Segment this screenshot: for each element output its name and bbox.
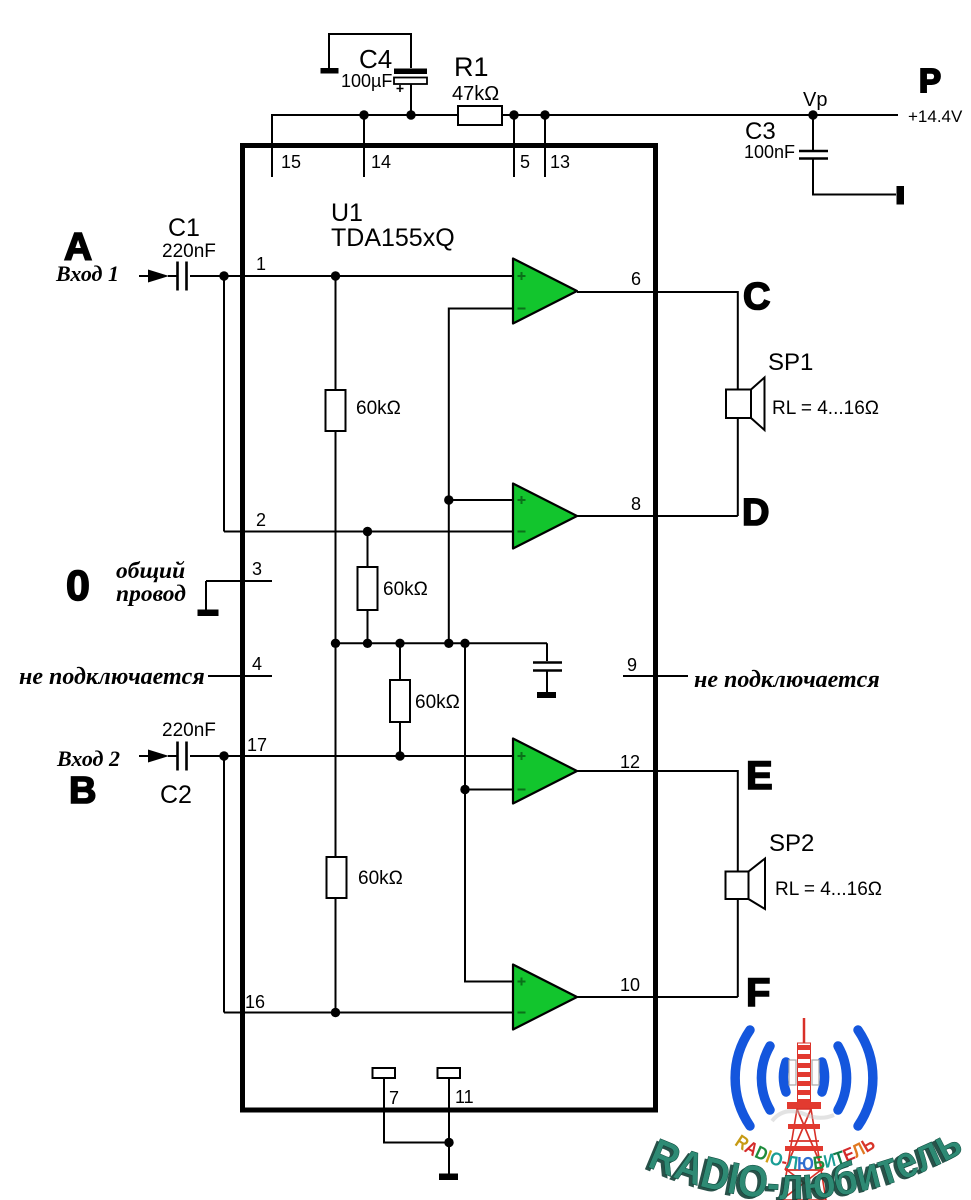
svg-text:C2: C2 [160,781,192,809]
ground bar internal capacitor [537,692,556,698]
node op2 plus [444,495,453,504]
node A split [219,271,228,280]
svg-text:220nF: 220nF [162,241,216,262]
svg-text:D: D [742,492,769,534]
wire pin 12 output to node E [577,771,738,872]
svg-text:60kΩ: 60kΩ [415,692,460,713]
svg-text:0: 0 [66,562,90,610]
svg-text:TDA155xQ: TDA155xQ [331,224,455,252]
wire pin 14 stub [363,115,365,177]
ground bar at pin 3 [198,610,219,617]
logo radio waves blue arcs [735,1030,873,1126]
capacitor C1 220nF [178,262,187,291]
svg-text:9: 9 [627,655,637,675]
node pin2-60k [363,527,372,536]
capacitor C2 220nF [178,742,187,771]
svg-text:U1: U1 [331,199,363,227]
op-amp 3 polarity marks [518,752,526,790]
pin 7 pad [373,1068,396,1078]
wire op2 non-inverting branch [449,499,513,501]
node row-4 [444,639,453,648]
node pin1-60k [331,271,340,280]
wire supply bus right of R1 [502,114,898,116]
svg-text:R1: R1 [454,52,489,82]
node op3 minus [460,785,469,794]
node row-1 [331,639,340,648]
logo big 3D text RADIO-lyubitel [646,1153,962,1199]
resistor R1 47k [458,106,502,125]
node B split [219,751,228,760]
speaker SP2 [726,872,749,900]
wire C4 bottom lead [410,84,412,115]
svg-text:SP1: SP1 [768,349,813,376]
svg-text:P: P [919,62,941,99]
svg-text:провод: провод [116,581,186,607]
svg-text:220nF: 220nF [162,720,216,741]
wire input A to C1 [139,275,152,277]
svg-text:B: B [69,770,96,812]
svg-text:SP2: SP2 [769,830,814,857]
op-amp 1 polarity marks [518,272,526,309]
wire pin 3 ground stem [205,581,207,610]
ground bar at C4 [321,68,339,74]
svg-text:RL = 4...16Ω: RL = 4...16Ω [775,879,882,900]
svg-text:не подключается: не подключается [694,667,880,693]
wire pin 13 stub [544,115,546,177]
wire branch B vertical to pin 16 [223,756,225,1013]
capacitor C4 100uF electrolytic [394,69,427,93]
svg-text:60kΩ: 60kΩ [356,398,401,419]
svg-text:100µF: 100µF [341,71,392,91]
capacitor C3 100nF [799,151,828,159]
wire pin 3 stub [206,580,272,582]
wire SP2 to pin 10 node F [577,899,738,997]
node row-5 [460,639,469,648]
svg-text:7: 7 [389,1088,399,1108]
arrow input 2 [148,750,169,763]
wire x=465 chain to op4 non-inverting [465,643,513,981]
capacitor internal decoupling [533,663,562,671]
wire C4 top loop to ground [329,34,411,72]
svg-text:60kΩ: 60kΩ [358,868,403,889]
wire pin 11 lead to ground [448,1078,450,1174]
wire C3 top lead from Vp [812,115,814,150]
wire 60k resistor 2 chain [367,532,369,644]
wire pin 2 line [224,531,513,533]
node row-3 [395,639,404,648]
wire pin 16 line [224,1012,513,1014]
wire C2 to pin 17 [168,755,513,757]
svg-text:15: 15 [281,152,301,172]
svg-text:13: 13 [550,152,570,172]
svg-text:4: 4 [252,654,262,674]
svg-text:Вход 1: Вход 1 [55,261,119,286]
svg-text:8: 8 [631,494,641,514]
node bus-5 [509,110,518,119]
wire op3 inverting branch [465,789,513,791]
svg-text:C3: C3 [745,118,776,145]
node row-2 [363,639,372,648]
svg-text:+14.4V: +14.4V [908,107,963,126]
wire pin 4 stub [208,675,272,677]
svg-text:Vp: Vp [803,89,827,111]
wire 60k resistor 3 chain [399,643,401,756]
svg-text:RL = 4...16Ω: RL = 4...16Ω [772,398,879,419]
svg-text:F: F [746,971,770,1015]
logo tower lattice [782,1109,826,1200]
node pin7-11 join [444,1138,453,1147]
svg-text:14: 14 [371,152,391,172]
resistor 60k #4 [327,857,347,898]
svg-text:47kΩ: 47kΩ [452,83,499,105]
svg-text:C1: C1 [168,214,200,242]
IC U1 box outline [243,146,656,1111]
wire pin 6 output to node C [577,292,738,390]
svg-text:10: 10 [620,975,640,995]
wire center node row [336,642,548,644]
wire supply bus left of R1 [272,114,458,116]
svg-text:60kΩ: 60kΩ [383,579,428,600]
svg-text:16: 16 [245,992,265,1012]
resistor 60k #1 [326,390,346,431]
logo small arc text RADIO-LYUBITEL [732,1138,889,1170]
op-amp 4 [513,965,577,1030]
op-amp 4 polarity marks [518,978,526,1013]
node bus-13 [540,110,549,119]
node Vp [808,110,817,119]
wire branch A vertical to pin 2 [223,276,225,532]
node pin17-60k [395,751,404,760]
svg-text:Вход 2: Вход 2 [56,746,120,771]
wire pin 7 lead [384,1078,449,1143]
node pin16-60k [331,1008,340,1017]
wire resistor chain x=335.5 pin1 to pin16 [335,276,337,1013]
svg-text:2: 2 [256,510,266,530]
terminal I bar at +14.4V return [897,186,905,205]
op-amp 3 [513,739,577,804]
wire SP1 to pin 8 node D [577,418,738,516]
svg-text:1: 1 [256,254,266,274]
wire op1 inverting input feedback [449,309,513,644]
node bus-C4 [406,110,415,119]
arrow input 1 [148,270,169,283]
wire pin 15 stub [271,114,273,177]
svg-text:5: 5 [520,152,530,172]
wire C3 bottom lead to terminal [813,158,896,195]
wire internal capacitor leads [546,643,548,693]
wire C1 to pin 1 [168,275,513,277]
wire input B to C2 [139,755,152,757]
pin 11 pad [438,1068,461,1078]
svg-text:100nF: 100nF [744,142,795,162]
svg-text:E: E [746,754,773,798]
resistor 60k #3 [390,680,410,722]
svg-text:11: 11 [455,1087,474,1107]
svg-text:3: 3 [252,559,262,579]
LOGO [639,1018,970,1200]
svg-text:17: 17 [247,735,267,755]
op-amp 1 [513,259,577,324]
svg-text:6: 6 [631,269,641,289]
wire pin 5 stub [513,115,515,177]
op-amp 2 [513,484,577,549]
speaker SP1 [726,390,751,419]
resistor 60k #2 [358,567,378,610]
logo tower mast [772,1018,834,1200]
svg-text:C4: C4 [359,44,392,74]
node bus-14 [359,110,368,119]
svg-text:12: 12 [620,752,640,772]
wire pin 9 stub [623,675,688,677]
svg-text:C: C [743,276,770,318]
op-amp 2 polarity marks [518,496,526,532]
ground bar bottom pins 7/11 [439,1174,458,1181]
svg-text:не подключается: не подключается [19,664,205,690]
